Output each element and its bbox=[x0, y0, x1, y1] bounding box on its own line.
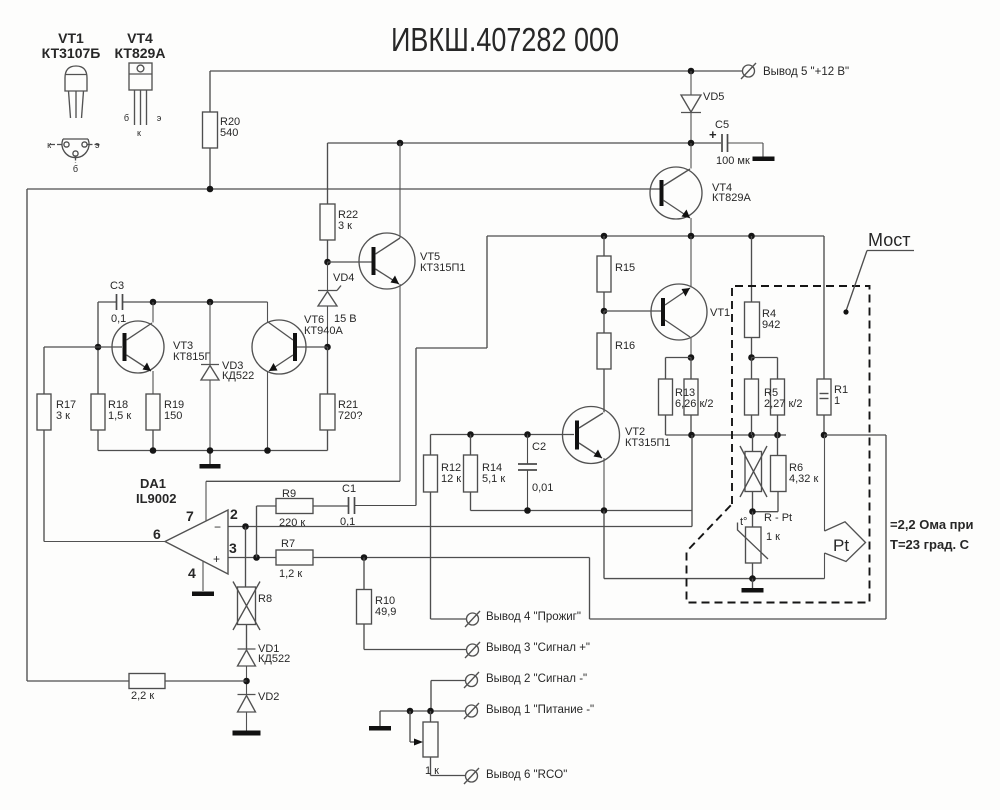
node bridge bottom-left junctions bbox=[688, 432, 781, 439]
svg-text:12 к: 12 к bbox=[441, 473, 461, 485]
wire terminal 1 / ground rail bbox=[380, 711, 466, 726]
transistor VT4 КТ829А bbox=[650, 143, 751, 236]
resistor R22 3к bbox=[320, 143, 358, 262]
wire VT1 base bbox=[604, 310, 661, 312]
svg-text:4: 4 bbox=[188, 565, 196, 581]
svg-text:R9: R9 bbox=[282, 488, 296, 500]
transistor VT1 package label bbox=[42, 30, 101, 61]
ground (op-amp pin 4) bbox=[192, 592, 214, 597]
wire op-amp pin 7 supply rail bbox=[206, 480, 400, 482]
resistor R9 220к bbox=[257, 488, 349, 558]
svg-text:2,2 к: 2,2 к bbox=[131, 690, 154, 702]
potentiometer 1к bbox=[410, 711, 466, 777]
node y302 junctions bbox=[95, 299, 214, 351]
svg-text:t°: t° bbox=[740, 516, 747, 528]
resistor R14 5,1к bbox=[464, 435, 506, 511]
svg-text:15 В: 15 В bbox=[334, 313, 357, 325]
ground (VD2) bbox=[233, 731, 261, 736]
node thermistor bottom / ground bbox=[749, 575, 756, 582]
node R20 bottom bbox=[207, 186, 214, 193]
svg-text:R8: R8 bbox=[258, 593, 272, 605]
terminal Вывод 3 "Сигнал +" bbox=[465, 642, 590, 658]
resistor R5 2,27к/2 (pair) bbox=[745, 358, 803, 436]
resistor R21 720? bbox=[320, 347, 362, 451]
resistor R13 6,26к/2 (pair) bbox=[659, 358, 714, 436]
wire C1 feedback path to VT4 emitter rail bbox=[416, 236, 487, 506]
capacitor C5 100мк bbox=[709, 119, 763, 167]
capacitor C1 0,1 bbox=[340, 483, 416, 528]
label Мост with leader bbox=[843, 230, 914, 315]
svg-text:VT4: VT4 bbox=[127, 30, 153, 46]
svg-text:КТ315П1: КТ315П1 bbox=[420, 262, 466, 274]
wire VT6 base bbox=[297, 346, 328, 348]
label bridge resistance note bbox=[890, 517, 973, 552]
transistor VT4 package TO-220 drawing bbox=[124, 63, 162, 138]
ground (sensor) bbox=[742, 579, 764, 593]
diode VD3 КД522 bbox=[201, 302, 254, 451]
transistor VT3 КТ815Г bbox=[112, 302, 210, 394]
resistor R15 bbox=[597, 236, 635, 311]
svg-text:2: 2 bbox=[230, 506, 238, 522]
svg-text:5,1 к: 5,1 к bbox=[482, 473, 505, 485]
svg-text:DA1: DA1 bbox=[140, 476, 166, 491]
node pin2/R8 junction bbox=[242, 523, 249, 530]
svg-text:КД522: КД522 bbox=[258, 653, 290, 665]
node VT2 base rail junctions bbox=[467, 431, 531, 438]
svg-text:VT1: VT1 bbox=[710, 307, 730, 319]
terminal Вывод 1 "Питание -" bbox=[464, 703, 594, 719]
thermistor R-Pt 1к bbox=[738, 512, 793, 579]
node rail y236 junctions bbox=[601, 233, 755, 240]
svg-text:2,27 к/2: 2,27 к/2 bbox=[764, 398, 802, 410]
resistor R12 12к bbox=[424, 435, 462, 620]
svg-text:R - Pt: R - Pt bbox=[764, 512, 792, 524]
wire VT4 emitter rail y=236 bbox=[487, 235, 824, 237]
node VD4 bottom / VT6 base / R21 top bbox=[324, 344, 331, 351]
wire op-amp pin 3 net bbox=[228, 557, 590, 559]
svg-text:э: э bbox=[157, 113, 162, 123]
transistor VT1 package TO-92 drawing bbox=[65, 66, 87, 118]
svg-text:=2,2 Ома при: =2,2 Ома при bbox=[890, 517, 973, 532]
svg-text:КТ815Г: КТ815Г bbox=[173, 351, 210, 363]
resistor R17 3к bbox=[37, 394, 76, 542]
svg-text:ИВКШ.407282 000: ИВКШ.407282 000 bbox=[391, 21, 619, 58]
svg-text:150: 150 bbox=[164, 410, 182, 422]
wire VT4 base rail y=189 bbox=[27, 188, 660, 190]
resistor R1 1 (reference) bbox=[817, 236, 848, 435]
wire multivibrator ground rail y=450 bbox=[98, 451, 328, 465]
diode VD1 КД522 bbox=[238, 643, 291, 694]
resistor R4 942 bbox=[745, 236, 781, 358]
svg-text:КТ829А: КТ829А bbox=[115, 45, 166, 61]
svg-text:VT1: VT1 bbox=[58, 30, 84, 46]
node R15/R16/VT1 base bbox=[601, 308, 608, 315]
svg-text:C2: C2 bbox=[532, 441, 546, 453]
diode VD2 bbox=[238, 691, 280, 731]
svg-text:КТ315П1: КТ315П1 bbox=[625, 437, 671, 449]
resistor R6 4,32к bbox=[753, 435, 819, 512]
wire multivibrator collector rail y=302 bbox=[98, 302, 268, 394]
svg-text:Вывод 5 "+12 В": Вывод 5 "+12 В" bbox=[763, 66, 849, 78]
wire VT2 emitter rail y=510.5 bbox=[471, 510, 693, 512]
svg-text:1: 1 bbox=[834, 395, 840, 407]
svg-text:1,5 к: 1,5 к bbox=[108, 410, 131, 422]
node ground rail junctions bbox=[150, 447, 271, 454]
svg-text:Вывод 4 "Прожиг": Вывод 4 "Прожиг" bbox=[486, 611, 581, 623]
svg-text:3 к: 3 к bbox=[338, 220, 352, 232]
svg-text:1 к: 1 к bbox=[766, 531, 780, 543]
svg-text:540: 540 bbox=[220, 127, 238, 139]
svg-text:э: э bbox=[95, 140, 100, 150]
node pin3 junctions bbox=[253, 554, 367, 561]
svg-text:Мост: Мост bbox=[868, 230, 910, 250]
svg-text:1 к: 1 к bbox=[425, 765, 439, 777]
node +12V/VD5 junction bbox=[688, 68, 695, 75]
svg-text:R15: R15 bbox=[615, 262, 635, 274]
svg-text:6: 6 bbox=[153, 526, 161, 542]
capacitor C3 0,1 bbox=[110, 280, 126, 325]
svg-text:КТ940А: КТ940А bbox=[304, 325, 343, 337]
Pt sensor element bbox=[825, 435, 866, 579]
svg-text:3 к: 3 к bbox=[56, 410, 70, 422]
svg-text:C5: C5 bbox=[715, 119, 729, 131]
svg-text:КТ829А: КТ829А bbox=[712, 192, 751, 204]
wire VT2 emitter to sensor y=578.6 bbox=[604, 511, 825, 579]
svg-text:0,01: 0,01 bbox=[532, 482, 553, 494]
resistor 2,2к bbox=[27, 674, 247, 703]
node R22 bottom / VT5 base bbox=[324, 259, 331, 266]
svg-text:VD5: VD5 bbox=[703, 91, 724, 103]
svg-text:КД522: КД522 bbox=[222, 370, 254, 382]
svg-text:к: к bbox=[137, 128, 141, 138]
svg-text:VD2: VD2 bbox=[258, 691, 279, 703]
wire left edge drop x=27 bbox=[26, 189, 28, 681]
svg-text:Вывод 2 "Сигнал -": Вывод 2 "Сигнал -" bbox=[486, 673, 587, 685]
svg-text:Вывод 3 "Сигнал +": Вывод 3 "Сигнал +" bbox=[486, 642, 590, 654]
node VD1/VD2/2,2к junction bbox=[243, 678, 250, 685]
ground (output) bbox=[369, 726, 391, 731]
op-amp DA1 IL9002 bbox=[44, 476, 238, 591]
svg-text:VD4: VD4 bbox=[333, 272, 354, 284]
resistor R18 1,5к bbox=[91, 394, 131, 451]
terminal Вывод 4 "Прожиг" bbox=[465, 611, 581, 627]
svg-text:0,1: 0,1 bbox=[340, 516, 355, 528]
svg-text:3: 3 bbox=[229, 540, 237, 556]
transistor VT2 КТ315П1 bbox=[563, 369, 671, 511]
svg-text:6,26 к/2: 6,26 к/2 bbox=[675, 398, 713, 410]
wire terminal 2 lead bbox=[431, 681, 466, 712]
resistor R8 (crossed) bbox=[233, 527, 272, 649]
title bbox=[391, 21, 619, 58]
wire VT3 base bbox=[44, 347, 122, 394]
resistor R19 150 bbox=[146, 394, 184, 451]
wire +12V top rail bbox=[210, 70, 743, 72]
svg-text:−: − bbox=[214, 520, 221, 534]
svg-text:б: б bbox=[124, 113, 129, 123]
wire VT2 base rail y=434.5 bbox=[431, 434, 575, 436]
node thermistor top junction bbox=[749, 508, 756, 515]
svg-text:720?: 720? bbox=[338, 410, 362, 422]
svg-text:C3: C3 bbox=[110, 280, 124, 292]
svg-text:Pt: Pt bbox=[833, 536, 849, 555]
transistor VT4 package label bbox=[115, 30, 166, 61]
svg-text:к: к bbox=[47, 140, 51, 150]
svg-text:б: б bbox=[73, 164, 78, 174]
ground (multivibrator) bbox=[200, 464, 221, 469]
svg-text:7: 7 bbox=[186, 508, 194, 524]
resistor R10 49,9 bbox=[357, 558, 467, 650]
node VT5 collector junction bbox=[397, 140, 404, 147]
wire bridge right output to pin3 bbox=[590, 435, 887, 619]
resistor R7 1,2к bbox=[276, 538, 313, 580]
resistor R16 bbox=[597, 311, 635, 412]
bridge dashed box Мост bbox=[687, 286, 870, 603]
capacitor C2 0,01 bbox=[518, 435, 553, 511]
svg-text:R16: R16 bbox=[615, 340, 635, 352]
wire terminal 4 lead bbox=[431, 618, 467, 620]
svg-text:+: + bbox=[213, 552, 220, 566]
wire VD5/C5/VT5 node y=143 bbox=[328, 142, 722, 144]
node R1 bottom bbox=[821, 432, 828, 439]
node emitter rail junctions bbox=[524, 507, 607, 514]
transistor VT1 bbox=[651, 236, 730, 358]
terminal Вывод 6 "RCO" bbox=[464, 768, 567, 784]
svg-text:49,9: 49,9 bbox=[375, 606, 396, 618]
svg-text:Вывод 1 "Питание -": Вывод 1 "Питание -" bbox=[486, 704, 594, 716]
wire bridge-left to VT2 emitter x=692 bbox=[691, 435, 693, 527]
svg-text:C1: C1 bbox=[342, 483, 356, 495]
svg-text:220 к: 220 к bbox=[279, 517, 305, 529]
transistor VT6 КТ940А (mirrored) bbox=[252, 302, 343, 451]
node VT1 collector / R13 junction bbox=[688, 354, 695, 361]
svg-text:0,1: 0,1 bbox=[111, 313, 126, 325]
svg-text:R7: R7 bbox=[281, 538, 295, 550]
terminal Вывод 2 "Сигнал -" bbox=[464, 672, 587, 688]
svg-text:942: 942 bbox=[762, 319, 780, 331]
ground at C5 bbox=[753, 157, 775, 162]
terminal Вывод 5 "+12 В" bbox=[741, 63, 849, 79]
resistor R20 540 bbox=[203, 71, 241, 189]
diode VD5 bbox=[681, 71, 724, 143]
resistor R2 (crossed, not installed) bbox=[740, 435, 767, 512]
zener VD4 15В bbox=[318, 262, 357, 347]
svg-text:100 мк: 100 мк bbox=[716, 155, 750, 167]
svg-text:1,2 к: 1,2 к bbox=[279, 568, 302, 580]
transistor VT1 package bottom view bbox=[47, 139, 101, 174]
svg-text:4,32 к: 4,32 к bbox=[789, 473, 818, 485]
wire bridge bottom-left rail y=435 bbox=[666, 434, 787, 436]
transistor VT5 КТ315П1 bbox=[359, 143, 466, 481]
svg-text:IL9002: IL9002 bbox=[136, 491, 176, 506]
node pot top junctions bbox=[407, 708, 434, 715]
svg-text:Т=23 град. С: Т=23 град. С bbox=[890, 537, 970, 552]
svg-text:Вывод 6 "RCO": Вывод 6 "RCO" bbox=[486, 769, 567, 781]
node VD5 bottom junction bbox=[688, 140, 695, 147]
wire op-amp pin 2 net bbox=[228, 526, 692, 528]
wire VT5 base bbox=[328, 261, 373, 263]
svg-text:КТ3107Б: КТ3107Б bbox=[42, 45, 101, 61]
node R4 bottom / R5 junction bbox=[748, 354, 755, 361]
